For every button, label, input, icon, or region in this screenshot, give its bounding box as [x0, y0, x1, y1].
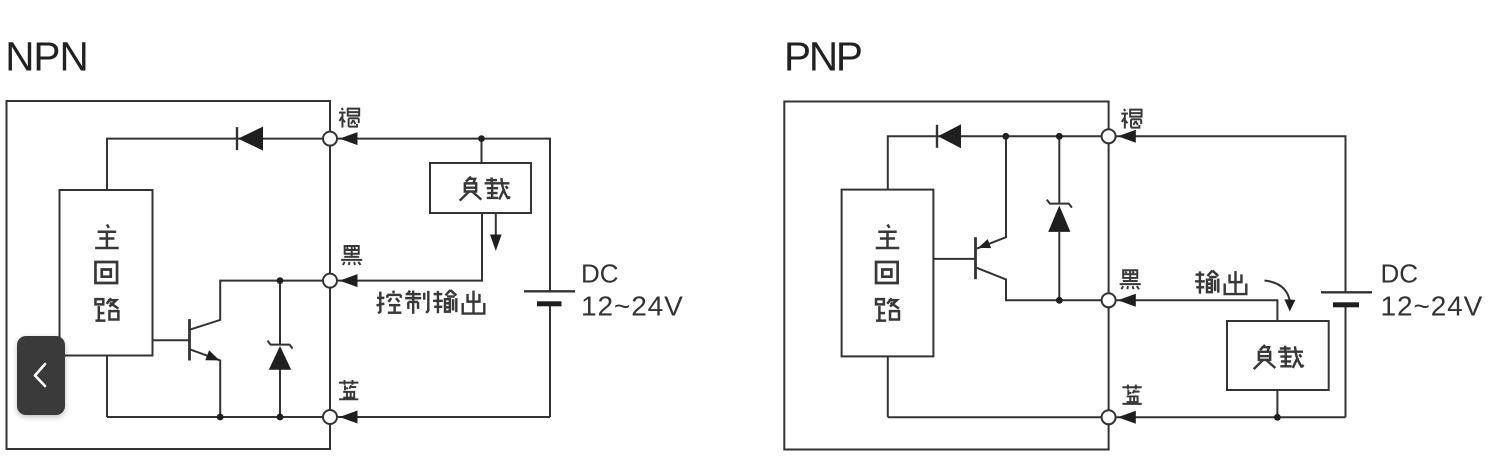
diode D1 cathode bar [236, 127, 238, 150]
wire: main-circuit box bottom to bottom rail [887, 356, 889, 417]
svg-text:DC: DC [581, 259, 619, 289]
label 载 (NPN load) [485, 177, 510, 199]
arrow into NPN black terminal [340, 274, 358, 287]
diode D1 (NPN top) triangle [238, 127, 263, 151]
battery B1 lower lead [549, 306, 551, 417]
transistor Q1 collector [191, 281, 331, 330]
arrow into PNP blue terminal [1118, 411, 1136, 424]
main circuit block 主回路 (PNP) [842, 190, 934, 357]
label 黑 (NPN) [341, 246, 362, 265]
internal bottom rail to blue terminal (PNP) [888, 416, 1109, 418]
label 回 (PNP) [876, 262, 898, 283]
terminal node 蓝 (NPN blue) [323, 410, 337, 424]
label 回 (NPN) [95, 262, 117, 283]
zener D4 top lead [1058, 136, 1060, 203]
junction dot: emitter at bottom rail [217, 414, 224, 421]
label 蓝 (NPN) [339, 380, 358, 399]
transistor Q1 emitter arrowhead [205, 350, 219, 360]
arrow into NPN brown terminal [340, 132, 358, 145]
terminal node 蓝 (PNP blue) [1102, 410, 1116, 424]
battery B2 thick plate [1333, 302, 1359, 307]
transistor Q2 base bar [974, 237, 977, 279]
curved arrow for PNP output [1265, 281, 1291, 303]
transistor Q1 emitter [191, 350, 221, 417]
PNP external black wire to load [1117, 300, 1278, 321]
NPN external: top wire brown to battery [338, 139, 550, 291]
battery B2 thin plate [1321, 291, 1372, 293]
junction dot: zener D4 top [1056, 133, 1063, 140]
transistor Q2 collector [977, 268, 1109, 301]
diode D3 cathode bar [936, 125, 938, 148]
battery B1 thin plate [524, 290, 575, 292]
wire: brown terminal to internal diode leg [888, 136, 1109, 189]
transistor Q1 base bar [188, 319, 191, 360]
PNP outer enclosure box [784, 102, 1108, 450]
label 褐 (NPN) [339, 108, 359, 128]
zener D2 bottom lead [279, 370, 281, 418]
chevron icon [17, 336, 65, 415]
load box NPN [430, 163, 531, 213]
label 负 (PNP load) [1254, 345, 1276, 369]
label 制 [405, 291, 428, 314]
junction dot: PNP emitter tap on top wire [1002, 133, 1009, 140]
label 输 (NPN) [433, 290, 456, 313]
label 路 (NPN) [95, 298, 118, 320]
load bottom lead to blue rail [1276, 390, 1278, 417]
label 褐 (PNP) [1121, 109, 1141, 129]
wire: base from main circuit to transistor Q1 [153, 339, 190, 341]
label 输 (PNP) [1195, 271, 1218, 294]
load box PNP [1227, 321, 1329, 390]
arrow into PNP brown terminal [1118, 130, 1136, 143]
terminal node 褐 (NPN brown) [323, 132, 337, 146]
label 负 (NPN load) [460, 177, 482, 201]
decorative current arrowhead below NPN load [490, 235, 502, 252]
svg-text:12~24V: 12~24V [1381, 290, 1484, 321]
transistor Q2 emitter arrowhead (points to base) [978, 239, 991, 248]
PNP external bottom wire blue to battery [1117, 416, 1346, 418]
junction dot: zener D2 bottom [277, 414, 284, 421]
label 出 (PNP) [1225, 271, 1247, 294]
PNP external: top wire brown to battery [1117, 136, 1346, 292]
diode D3 (PNP top) triangle [938, 124, 961, 148]
NPN external bottom wire blue to battery [338, 416, 550, 418]
terminal node 褐 (PNP brown) [1102, 129, 1116, 143]
terminal node 黑 (NPN black) [323, 274, 337, 288]
zener D4 cathode bar [1047, 200, 1072, 208]
main circuit block 主回路 [60, 190, 153, 356]
wire: brown terminal to internal diode leg [107, 139, 330, 190]
curved arrow head (PNP output) [1284, 299, 1295, 311]
label 黑 (PNP) [1120, 270, 1141, 289]
wire: base from main circuit to transistor Q2 [933, 258, 975, 260]
junction dot: zener D2 top [277, 277, 284, 284]
zener D2 cathode bar [268, 341, 293, 349]
label 主 (NPN) [95, 225, 119, 249]
carousel nav button [17, 336, 65, 415]
svg-text:PNP: PNP [784, 34, 861, 80]
arrow into NPN blue terminal [340, 411, 358, 424]
label 控 [377, 291, 402, 314]
svg-text:DC: DC [1381, 259, 1419, 289]
label 载 (PNP load) [1278, 346, 1303, 368]
load branch down from top wire [481, 139, 483, 163]
arrow into PNP black terminal [1118, 294, 1136, 307]
svg-text:12~24V: 12~24V [581, 290, 684, 321]
zener D2 triangle [269, 346, 291, 370]
decorative current arrow stem [495, 213, 497, 237]
NPN outer enclosure box [7, 101, 331, 449]
label 蓝 (PNP) [1122, 385, 1141, 404]
terminal node 黑 (PNP black) [1102, 293, 1116, 307]
junction dot: NPN load tap on top wire [478, 135, 485, 142]
battery B2 lower lead [1345, 307, 1347, 417]
junction dot: zener D4 bottom on black rail [1056, 297, 1063, 304]
junction dot: PNP load tap on bottom rail [1274, 414, 1281, 421]
transistor Q2 emitter lead [977, 136, 1006, 248]
load output wire to black terminal [338, 213, 482, 281]
battery B1 thick plate [537, 301, 562, 306]
wire: main-circuit box bottom to bottom rail [106, 356, 108, 418]
zener D4 bottom lead [1058, 232, 1060, 300]
label 出 (NPN) [463, 291, 485, 314]
label 路 (PNP) [876, 298, 899, 320]
zener D2 top lead [279, 281, 281, 345]
zener D4 triangle [1048, 206, 1070, 232]
bottom rail to blue terminal [107, 416, 330, 418]
svg-text:NPN: NPN [5, 34, 88, 80]
label 主 (PNP) [876, 225, 900, 249]
